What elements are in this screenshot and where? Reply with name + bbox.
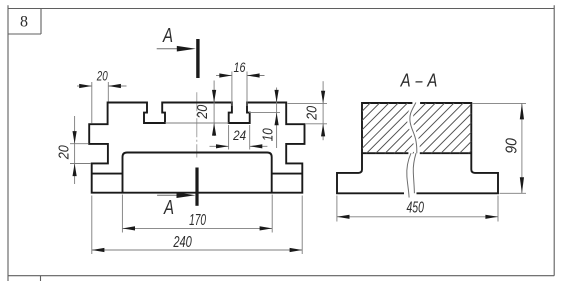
dimension 90 (section height) [473,103,527,193]
hatching left of break [298,100,522,166]
dimension 20 (right side step height) [288,81,328,140]
dimension 240 (overall width) [92,196,302,255]
svg-text:20: 20 [55,145,72,160]
break wavy line (lower left, through base) [407,153,411,197]
dimension 24 (slot bottom width) [210,125,268,150]
hatching right of break [298,100,522,166]
svg-text:90: 90 [504,138,521,154]
svg-text:A: A [400,71,411,91]
svg-text:A: A [163,197,174,219]
svg-text:–: – [415,71,423,91]
dimension 450 (section base width) [337,196,498,222]
svg-text:20: 20 [304,105,321,120]
centre line (dash-dot) of front view [196,92,198,157]
dimension 10 (slot opening depth) [249,88,280,149]
dimension 20 (top left, offset of top block) [77,68,127,124]
dimension 20 (slot depth, vertical between slots) [165,81,229,137]
svg-text:170: 170 [189,212,206,229]
svg-text:450: 450 [406,200,424,217]
svg-text:24: 24 [232,127,246,143]
left foot step line [92,173,123,175]
section mark A (top): thick stroke and arrow [157,25,198,78]
part outline: front view of slotted block [89,103,304,193]
svg-text:16: 16 [234,59,246,75]
section outline (A-A view) [337,103,498,193]
inner recess with rounded corners [123,153,272,193]
svg-text:A: A [162,25,173,47]
dimension 20 (left side step height) [55,116,90,184]
svg-text:A: A [427,71,438,91]
section mark A (bottom): thick stroke and arrow [157,168,197,220]
break wavy line (upper, through hatched block) [410,103,417,154]
svg-text:10: 10 [260,128,277,142]
title box with sheet number [8,9,41,35]
dimension 170 (recess width) [122,195,272,233]
right foot step line [272,173,303,175]
break wavy line (lower right, through base) [413,153,416,193]
dimension 16 (slot opening width) [216,59,265,106]
svg-text:20: 20 [194,104,211,119]
svg-text:20: 20 [96,68,108,84]
section shelf line (hatch boundary) [362,152,471,154]
svg-text:8: 8 [20,14,28,31]
svg-text:240: 240 [173,234,192,251]
